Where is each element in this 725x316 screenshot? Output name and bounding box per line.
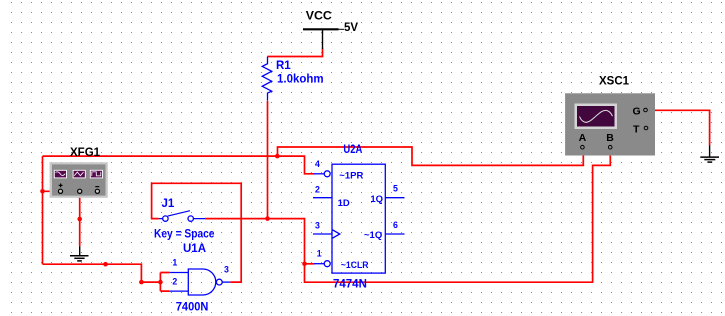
svg-text:VCC: VCC <box>306 11 332 23</box>
svg-text:~1PR: ~1PR <box>339 170 363 181</box>
svg-text:G: G <box>633 105 641 117</box>
svg-text:1D: 1D <box>338 198 350 209</box>
svg-text:2: 2 <box>315 185 320 195</box>
svg-text:B: B <box>606 132 614 144</box>
svg-text:7400N: 7400N <box>176 302 209 314</box>
svg-text:A: A <box>579 132 587 144</box>
svg-text:3: 3 <box>315 220 320 230</box>
svg-text:~1Q: ~1Q <box>364 230 382 241</box>
svg-text:T: T <box>633 123 640 135</box>
svg-text:J1: J1 <box>162 198 175 210</box>
svg-text:Key = Space: Key = Space <box>154 229 215 241</box>
svg-text:~1CLR: ~1CLR <box>341 260 369 271</box>
svg-text:7474N: 7474N <box>333 278 367 290</box>
svg-text:U2A: U2A <box>343 144 362 156</box>
svg-text:1: 1 <box>317 248 322 258</box>
svg-text:R1: R1 <box>276 60 291 72</box>
svg-text:1Q: 1Q <box>370 194 383 205</box>
svg-text:3: 3 <box>224 265 229 275</box>
svg-text:2: 2 <box>172 276 177 286</box>
svg-text:1.0kohm: 1.0kohm <box>277 73 324 85</box>
svg-text:5V: 5V <box>344 22 358 34</box>
svg-text:XSC1: XSC1 <box>599 76 630 88</box>
svg-text:U1A: U1A <box>183 243 206 255</box>
svg-text:4: 4 <box>315 159 320 169</box>
svg-text:1: 1 <box>172 258 177 268</box>
svg-text:XFG1: XFG1 <box>70 147 101 159</box>
svg-text:6: 6 <box>393 220 398 230</box>
svg-text:5: 5 <box>393 184 398 194</box>
